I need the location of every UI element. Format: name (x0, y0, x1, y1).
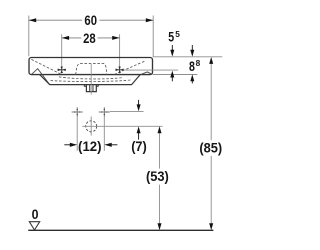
dimension 60 extension line right (152, 16, 154, 58)
dimension 8.8 bottom arrow (190, 74, 194, 81)
supply connection marker right (99, 107, 110, 117)
svg-text:60: 60 (84, 12, 97, 28)
dimension 5.5 top arrow (171, 45, 173, 51)
drain collar (84, 85, 98, 87)
dimension (12) extension line left (76, 117, 78, 151)
rim bottom reference line L3 (153, 74, 197, 76)
inner bowl front-right peak (141, 72, 152, 75)
hidden bowl bottom dashed curve lower (51, 80, 131, 82)
dimension (7) top arrow (138, 100, 140, 105)
dimension 28 extension line left (61, 34, 63, 66)
dimension (53) line (159, 133, 161, 223)
dimension 8.8 top arrow (191, 45, 193, 51)
tap hole marker left (58, 66, 66, 73)
tap axis reference line L2 (123, 69, 178, 71)
dimension (85) arrowheads (209, 57, 213, 64)
dimension 60 arrowheads (29, 18, 36, 22)
hidden bowl wall dashed diagonal right (114, 61, 146, 75)
drain inner wall left (89, 85, 91, 92)
svg-text:(53): (53) (146, 168, 169, 184)
dimension 5.5 label (168, 28, 180, 44)
dimension (53) arrowheads (158, 126, 162, 133)
dimension (85) line (210, 64, 212, 224)
top surface reference line L1 (153, 56, 222, 58)
dimension (12) extension line right (103, 117, 105, 151)
dimension (12) left arrow (64, 144, 70, 146)
dimension 28 line (62, 37, 120, 39)
dimension 60 line (29, 19, 153, 21)
dimension (7) bottom arrow (137, 126, 141, 133)
floor line (28, 229, 213, 231)
svg-text:(7): (7) (131, 138, 147, 154)
drain trap vertical axis (90, 117, 92, 136)
svg-text:(85): (85) (199, 139, 222, 155)
drain inner wall right (92, 85, 94, 92)
tap hole marker right (115, 66, 123, 73)
hidden bowl bottom dashed curve upper (59, 77, 123, 79)
svg-text:0: 0 (32, 206, 39, 222)
svg-text:(12): (12) (78, 138, 102, 154)
hidden bowl wall dashed diagonal left (31, 59, 61, 74)
hidden overflow mound dashed outline (76, 63, 107, 74)
datum triangle (29, 222, 39, 230)
bowl underside outline (40, 75, 141, 85)
inner bowl front-left peak (32, 69, 50, 85)
dimension 8.8 label (189, 58, 201, 74)
svg-text:5: 5 (175, 29, 180, 39)
svg-text:8: 8 (189, 58, 195, 74)
washbasin rim outline (29, 58, 153, 75)
dimension 28 extension line right (119, 34, 121, 66)
drain centerline (90, 64, 92, 95)
svg-text:8: 8 (196, 58, 201, 68)
svg-text:5: 5 (168, 28, 174, 44)
drain cup (86, 85, 96, 92)
drain trap horizontal axis extended to (53) (82, 125, 162, 127)
dimension 60 extension line left (28, 16, 30, 57)
dimension 28 arrowheads (62, 36, 69, 40)
svg-text:28: 28 (83, 30, 96, 46)
dimension 5.5 bottom arrow (170, 71, 174, 78)
drain trap dashed circle (86, 121, 97, 132)
supply connection marker left (72, 107, 83, 117)
dimension (12) right arrow (104, 143, 111, 147)
supply axis line to (7) (110, 110, 144, 112)
